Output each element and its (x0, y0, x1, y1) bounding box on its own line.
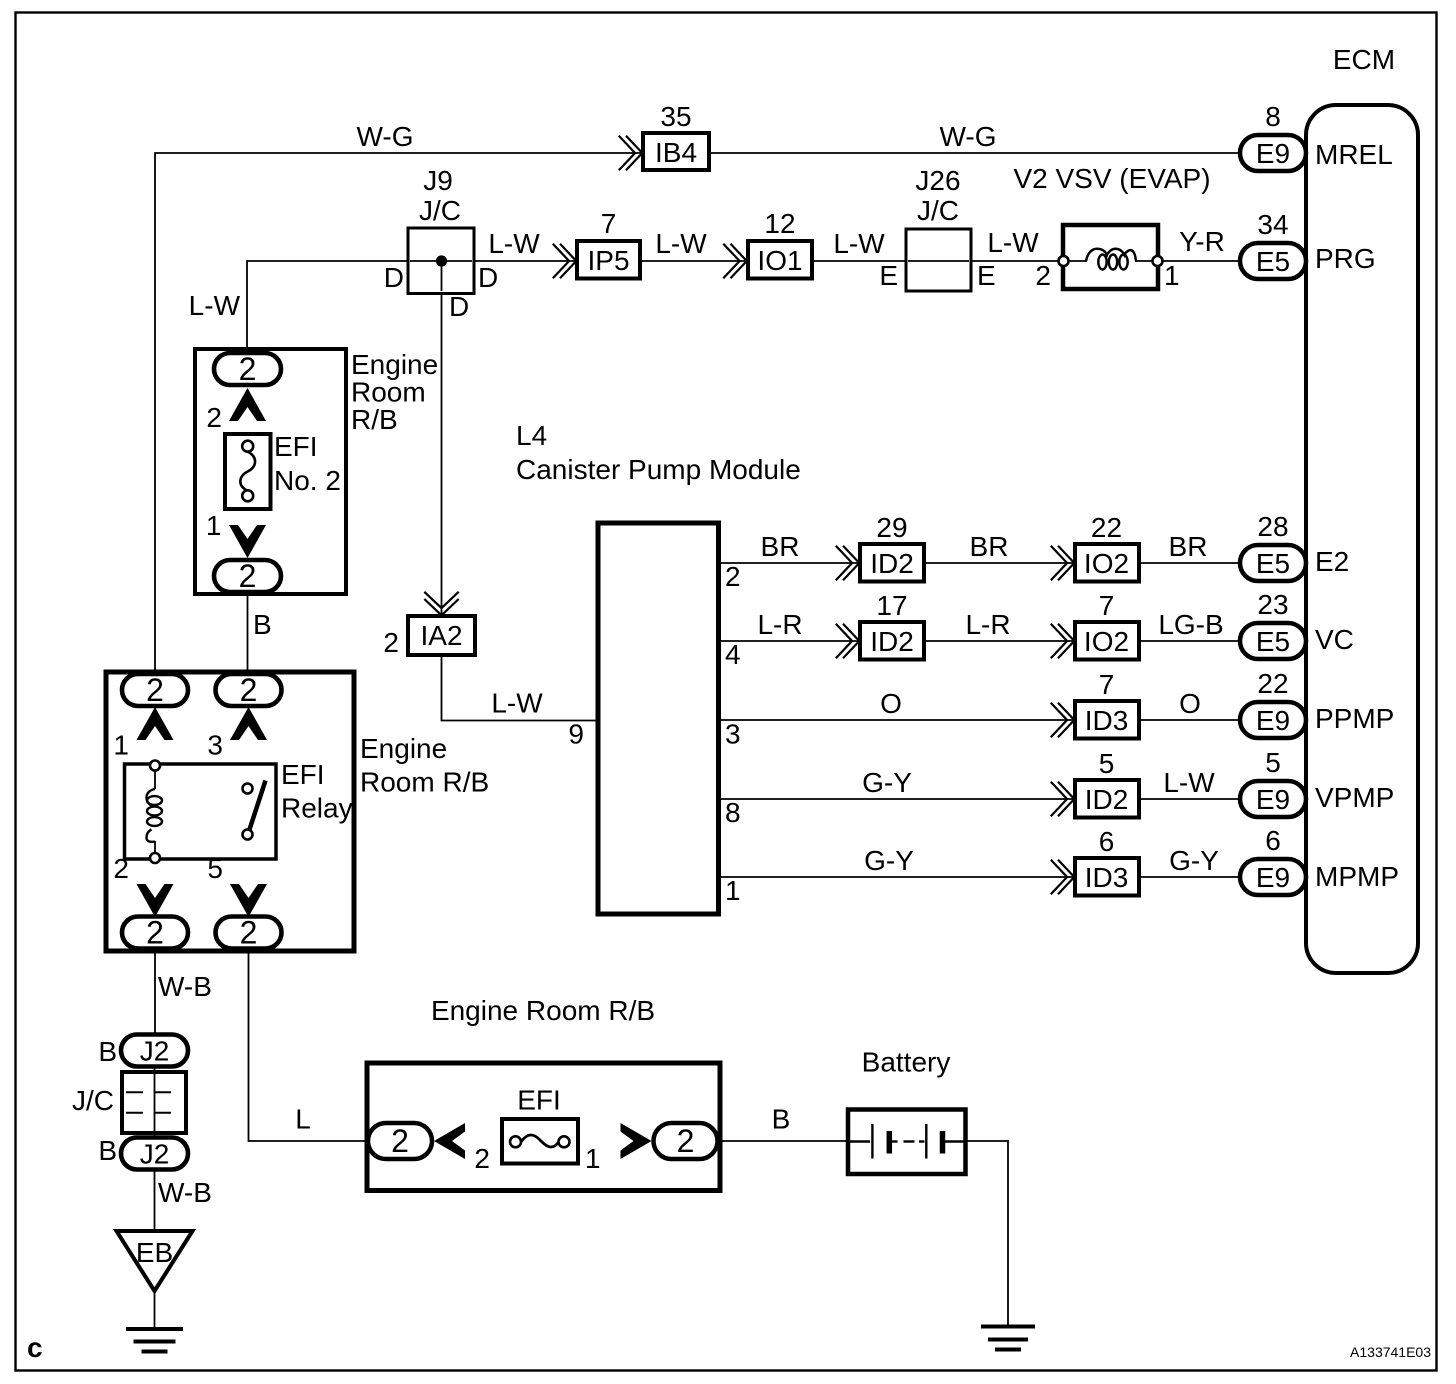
svg-text:W-G: W-G (356, 121, 413, 152)
L4 canister pump module outline (598, 523, 719, 914)
svg-text:J9: J9 (423, 165, 453, 196)
svg-text:J/C: J/C (917, 195, 959, 226)
svg-text:12: 12 (764, 208, 795, 239)
svg-text:BR: BR (761, 531, 800, 562)
svg-text:W-B: W-B (158, 1177, 212, 1208)
svg-text:ID3: ID3 (1085, 862, 1129, 893)
wire LG-B: IO2 to ECM E5 pin 23 (1139, 640, 1240, 642)
connector oval 2 (bottom of EFI No.2) (214, 558, 281, 594)
svg-text:7: 7 (601, 208, 617, 239)
svg-text:2: 2 (239, 351, 257, 387)
connector oval 2 (fuse box right) (654, 1123, 718, 1159)
svg-text:MREL: MREL (1315, 139, 1393, 170)
svg-text:2: 2 (383, 627, 399, 658)
svg-text:IO2: IO2 (1084, 548, 1129, 579)
battery (848, 1110, 966, 1175)
svg-text:VC: VC (1315, 624, 1354, 655)
svg-text:9: 9 (568, 719, 584, 750)
svg-text:VPMP: VPMP (1315, 782, 1394, 813)
connector ID3 (pin 6) (1051, 858, 1139, 896)
svg-text:2: 2 (240, 915, 258, 951)
wire L-W: ID2 to ECM E9 pin 5 (1139, 798, 1240, 800)
svg-text:34: 34 (1257, 209, 1288, 240)
connector IP5 (pin 7) (553, 241, 640, 279)
svg-text:8: 8 (1265, 101, 1281, 132)
svg-text:ID2: ID2 (870, 548, 914, 579)
svg-text:5: 5 (207, 853, 223, 884)
svg-text:2: 2 (391, 1123, 409, 1159)
connector ID2 (pin 17) (836, 622, 924, 660)
wire: fuse box interior right (578, 1140, 654, 1142)
connector oval 2 (top of EFI No.2) (214, 351, 281, 387)
svg-text:B: B (98, 1036, 117, 1067)
wire: fuse box interior left (432, 1140, 502, 1142)
svg-text:V2 VSV (EVAP): V2 VSV (EVAP) (1013, 163, 1210, 194)
ground symbol (EB) (126, 1329, 183, 1352)
svg-text:EB: EB (136, 1237, 173, 1268)
svg-text:B: B (253, 609, 272, 640)
connector E9 (VPMP) (1240, 781, 1306, 817)
svg-text:B: B (98, 1135, 117, 1166)
svg-text:O: O (880, 688, 902, 719)
svg-text:PRG: PRG (1315, 243, 1376, 274)
svg-text:G-Y: G-Y (862, 767, 912, 798)
wire L-W: IP5 to IO1 (640, 260, 748, 262)
svg-text:Engine: Engine (360, 733, 447, 764)
svg-text:G-Y: G-Y (864, 845, 914, 876)
svg-text:6: 6 (1265, 825, 1281, 856)
connector oval 2 (relay top right) (216, 672, 282, 708)
svg-text:17: 17 (876, 590, 907, 621)
wire: relay switch branch pin 3 (248, 706, 250, 784)
svg-text:W-B: W-B (158, 971, 212, 1002)
svg-text:B: B (772, 1104, 791, 1135)
svg-text:J2: J2 (140, 1139, 170, 1170)
svg-text:J/C: J/C (72, 1085, 114, 1116)
relay switch (243, 781, 266, 840)
svg-text:c: c (27, 1332, 43, 1363)
svg-text:EFI: EFI (517, 1085, 561, 1116)
svg-text:E2: E2 (1315, 546, 1349, 577)
svg-text:2: 2 (474, 1143, 490, 1174)
svg-text:Battery: Battery (862, 1047, 951, 1078)
svg-text:8: 8 (725, 797, 741, 828)
wire: EB triangle to ground (154, 1291, 156, 1327)
wire BR: ID2 to IO2 (924, 562, 1075, 564)
svg-text:ID2: ID2 (870, 626, 914, 657)
svg-text:L-W: L-W (189, 290, 241, 321)
svg-text:ID2: ID2 (1085, 784, 1129, 815)
svg-text:IA2: IA2 (420, 620, 462, 651)
svg-text:E: E (879, 260, 898, 291)
svg-text:2: 2 (677, 1123, 695, 1159)
connector oval 2 (relay bottom left) (122, 915, 188, 951)
connector arrow up (relay pin 1) (137, 707, 174, 740)
svg-text:IB4: IB4 (655, 137, 697, 168)
svg-text:2: 2 (146, 672, 164, 708)
wire L-W: J26 to VSV pin 2 (906, 260, 1059, 262)
wire: relay coil to pin 2 (154, 856, 156, 918)
svg-text:D: D (384, 262, 404, 293)
connector E9 (PPMP) (1240, 702, 1306, 738)
svg-text:IO2: IO2 (1084, 626, 1129, 657)
svg-text:1: 1 (585, 1143, 601, 1174)
svg-text:5: 5 (1099, 748, 1115, 779)
connector E5 pin 34 (PRG) (1240, 243, 1306, 279)
svg-text:23: 23 (1257, 589, 1288, 620)
svg-text:IP5: IP5 (587, 245, 629, 276)
svg-text:L-W: L-W (1163, 767, 1215, 798)
svg-text:6: 6 (1099, 826, 1115, 857)
wire G-Y: module pin 8 to ID2 (719, 798, 1076, 800)
connector E9 pin 8 (MREL) (1240, 135, 1306, 171)
svg-text:E5: E5 (1256, 246, 1290, 277)
svg-text:2: 2 (206, 402, 222, 433)
svg-text:BR: BR (1169, 531, 1208, 562)
wire BR: IO2 to ECM E5 pin 28 (1139, 562, 1240, 564)
svg-text:3: 3 (725, 719, 741, 750)
svg-text:L-W: L-W (488, 228, 540, 259)
svg-text:1: 1 (725, 875, 741, 906)
wire B: EFI No.2 to EFI relay pin 3 (247, 592, 249, 675)
svg-text:L: L (295, 1104, 311, 1135)
connector ID2 (pin 5) (1051, 780, 1139, 818)
svg-text:D: D (478, 262, 498, 293)
wire L-W: IO1 to J26 J/C (812, 260, 906, 262)
wire W-G: left vertical riser to IB4 (155, 153, 643, 674)
svg-text:2: 2 (240, 672, 258, 708)
svg-text:3: 3 (207, 730, 223, 761)
wire G-Y: module pin 1 to ID3 (719, 876, 1076, 878)
wire L: relay pin 5 down to Engine Room R/B fuse box (249, 948, 370, 1141)
connector arrow left (434, 1123, 465, 1159)
wire: battery positive to ground (965, 1141, 1008, 1327)
connector ID2 (pin 29) (836, 544, 924, 582)
connector IO1 (pin 12) (723, 241, 812, 279)
svg-text:28: 28 (1257, 511, 1288, 542)
svg-text:2: 2 (239, 558, 257, 594)
svg-text:E9: E9 (1256, 862, 1290, 893)
svg-text:Relay: Relay (281, 793, 353, 824)
connector ID3 (pin 7) (1051, 701, 1139, 739)
svg-text:LG-B: LG-B (1158, 609, 1223, 640)
svg-text:7: 7 (1099, 669, 1115, 700)
wire: J/C to J2 (154, 1132, 156, 1139)
connector arrow up (relay pin 3) (230, 707, 267, 740)
svg-text:5: 5 (1265, 747, 1281, 778)
wire L-R: ID2 to IO2 (924, 640, 1075, 642)
svg-text:29: 29 (876, 512, 907, 543)
svg-text:35: 35 (660, 101, 691, 132)
svg-text:No. 2: No. 2 (274, 465, 341, 496)
connector IO2 (pin 22) (1051, 544, 1139, 582)
junction block J26 J/C (906, 229, 971, 291)
wire W-B: J2 to EB ground point (154, 1169, 156, 1232)
wire L-W: J9 junction down to IA2 (441, 261, 443, 616)
svg-text:IO1: IO1 (757, 245, 802, 276)
Engine Room R/B block (EFI No.2 fuse) (195, 349, 346, 594)
svg-text:A133741E03: A133741E03 (1350, 1344, 1431, 1360)
svg-text:E5: E5 (1256, 626, 1290, 657)
ground symbol (battery) (981, 1327, 1035, 1350)
wire L-W: J9 to IP5 (410, 260, 577, 262)
svg-text:EFI: EFI (281, 759, 325, 790)
EFI relay inner box (125, 764, 277, 859)
svg-text:7: 7 (1099, 590, 1115, 621)
fuse EFI (502, 1119, 578, 1164)
svg-text:J2: J2 (140, 1036, 170, 1067)
junction block J/C (J2) (122, 1072, 186, 1133)
ECM module outline (1306, 105, 1418, 973)
svg-text:2: 2 (725, 561, 741, 592)
VSV V2 (EVAP) solenoid valve (1059, 225, 1163, 289)
connector oval 2 (relay top left) (122, 672, 188, 708)
wire L-W: J9 J/C to EFI No.2 fuse (vertical at x=247) (247, 261, 410, 354)
svg-text:2: 2 (146, 915, 164, 951)
svg-text:Engine Room R/B: Engine Room R/B (431, 995, 655, 1026)
connector arrow down (relay pin 2) (137, 884, 174, 917)
ground point EB triangle (117, 1231, 193, 1291)
connector E5 (E2) (1240, 545, 1306, 581)
svg-text:Engine: Engine (351, 349, 438, 380)
svg-text:Canister Pump Module: Canister Pump Module (516, 454, 801, 485)
svg-text:L-W: L-W (655, 228, 707, 259)
svg-text:1: 1 (1164, 260, 1180, 291)
svg-text:L-W: L-W (987, 227, 1039, 258)
connector IB4 (pin 35) on W-G wire (619, 133, 709, 170)
wire: EFI No.2 fuse internal vertical (247, 354, 249, 434)
wire B: fuse box to battery (718, 1140, 849, 1142)
fuse EFI No.2 (225, 434, 271, 509)
connector IO2 (pin 7) (1051, 622, 1139, 660)
svg-text:R/B: R/B (351, 404, 398, 435)
wire O: ID3 to ECM E9 pin 22 (1139, 719, 1240, 721)
svg-text:E5: E5 (1256, 548, 1290, 579)
svg-text:E9: E9 (1256, 138, 1290, 169)
svg-text:E9: E9 (1256, 705, 1290, 736)
svg-text:L-R: L-R (965, 609, 1010, 640)
connector arrow down (relay pin 5) (230, 884, 267, 917)
svg-text:W-G: W-G (939, 121, 996, 152)
connector J2 (lower) (121, 1138, 188, 1170)
svg-text:PPMP: PPMP (1315, 703, 1394, 734)
svg-text:22: 22 (1091, 512, 1122, 543)
svg-text:L-W: L-W (833, 228, 885, 259)
connector arrow right (621, 1123, 652, 1159)
svg-text:L-W: L-W (491, 688, 543, 719)
svg-text:J26: J26 (915, 165, 960, 196)
svg-text:G-Y: G-Y (1169, 845, 1219, 876)
svg-text:L-R: L-R (757, 609, 802, 640)
svg-text:Room: Room (351, 377, 426, 408)
svg-text:BR: BR (970, 531, 1009, 562)
wire L-W: IA2 to canister pump module pin 9 (442, 655, 599, 721)
connector IA2 (pin 2) (408, 592, 475, 655)
svg-text:O: O (1179, 688, 1201, 719)
svg-text:MPMP: MPMP (1315, 861, 1399, 892)
svg-text:E9: E9 (1256, 784, 1290, 815)
svg-text:2: 2 (113, 853, 129, 884)
Engine Room R/B block (EFI relay) (106, 672, 354, 951)
svg-text:Room R/B: Room R/B (360, 767, 489, 798)
connector arrow down (pin 1) (229, 525, 266, 558)
svg-text:ID3: ID3 (1085, 705, 1129, 736)
wire O: module pin 3 to ID3 (719, 719, 1076, 721)
svg-text:D: D (449, 291, 469, 322)
relay coil (147, 761, 163, 864)
svg-text:L4: L4 (516, 420, 547, 451)
connector E9 (MPMP) (1240, 859, 1306, 895)
svg-text:Y-R: Y-R (1179, 226, 1225, 257)
connector J2 (upper) (121, 1035, 188, 1067)
wire: relay coil branch pin 1 (154, 706, 156, 764)
svg-text:4: 4 (725, 639, 741, 670)
connector oval 2 (fuse box left) (368, 1123, 432, 1159)
Engine Room R/B block (EFI fuse) (367, 1063, 720, 1191)
connector arrow up (pin 2) (229, 388, 266, 421)
wire L-R: module pin 4 to ID2 (719, 640, 861, 642)
wire: relay switch to pin 5 (247, 840, 249, 919)
svg-text:1: 1 (206, 510, 222, 541)
svg-text:E: E (977, 260, 996, 291)
wire Y-R: VSV pin 1 to ECM E5 pin 34 (1163, 260, 1241, 262)
svg-text:ECM: ECM (1333, 44, 1395, 75)
wire: J2 to J/C (154, 1066, 156, 1073)
connector E5 (VC) (1240, 623, 1306, 659)
svg-text:1: 1 (113, 730, 129, 761)
connector oval 2 (relay bottom right) (216, 915, 282, 951)
svg-text:J/C: J/C (419, 195, 461, 226)
svg-text:22: 22 (1257, 668, 1288, 699)
wire W-B: relay pin 2 down to J2 (154, 948, 156, 1035)
svg-text:2: 2 (1035, 260, 1051, 291)
wire G-Y: ID3 to ECM E9 pin 6 (1139, 876, 1240, 878)
junction block J9 J/C (408, 228, 474, 294)
wire BR: module pin 2 to ID2 (719, 562, 861, 564)
wire W-G: IB4 to ECM E9 pin 8 (709, 152, 1240, 154)
svg-text:EFI: EFI (274, 431, 318, 462)
